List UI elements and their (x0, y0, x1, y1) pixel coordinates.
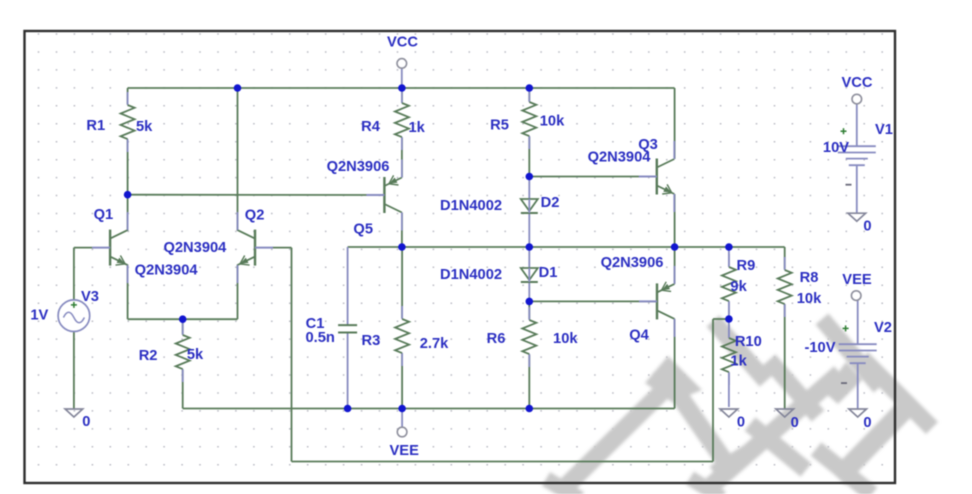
svg-text:10V: 10V (823, 140, 849, 156)
svg-text:Q2N3906: Q2N3906 (601, 255, 664, 271)
svg-text:Q2N3904: Q2N3904 (135, 263, 199, 279)
svg-text:R3: R3 (362, 333, 381, 349)
svg-text:D1: D1 (539, 265, 558, 281)
svg-text:R8: R8 (800, 270, 819, 286)
svg-text:5k: 5k (136, 119, 153, 135)
svg-text:V1: V1 (875, 122, 893, 138)
svg-text:V2: V2 (874, 320, 892, 336)
svg-text:10k: 10k (797, 291, 822, 307)
svg-text:R1: R1 (86, 118, 105, 134)
svg-text:Q5: Q5 (353, 222, 373, 238)
svg-text:1k: 1k (409, 120, 426, 136)
svg-text:VEE: VEE (842, 272, 872, 288)
svg-text:0: 0 (863, 415, 871, 431)
svg-text:0: 0 (82, 414, 90, 430)
svg-text:0.5n: 0.5n (306, 330, 335, 346)
svg-text:10k: 10k (553, 331, 578, 347)
svg-text:VCC: VCC (841, 75, 872, 91)
svg-text:R6: R6 (487, 331, 506, 347)
svg-text:2.7k: 2.7k (420, 336, 449, 352)
svg-text:Q2N3904: Q2N3904 (163, 240, 227, 256)
svg-text:V3: V3 (81, 289, 99, 305)
svg-text:R5: R5 (490, 118, 509, 134)
svg-text:R4: R4 (361, 119, 381, 135)
svg-text:0: 0 (791, 415, 799, 431)
svg-text:R10: R10 (735, 334, 762, 350)
svg-text:R2: R2 (139, 348, 158, 364)
svg-text:R9: R9 (737, 258, 756, 274)
svg-text:Q2N3904: Q2N3904 (588, 150, 652, 166)
svg-text:Q2: Q2 (245, 208, 265, 224)
svg-text:5k: 5k (187, 347, 204, 363)
svg-text:D1N4002: D1N4002 (440, 198, 502, 214)
svg-text:9k: 9k (730, 279, 747, 295)
svg-text:1k: 1k (730, 354, 747, 370)
svg-text:0: 0 (737, 415, 745, 431)
svg-text:Q2N3906: Q2N3906 (327, 159, 390, 175)
svg-text:0: 0 (863, 219, 871, 235)
svg-text:10k: 10k (540, 114, 565, 130)
svg-text:D2: D2 (541, 195, 560, 211)
svg-text:Q4: Q4 (629, 328, 649, 344)
svg-text:-10V: -10V (804, 340, 835, 356)
svg-text:D1N4002: D1N4002 (440, 267, 502, 283)
svg-text:Q1: Q1 (94, 207, 114, 223)
svg-text:VCC: VCC (387, 35, 418, 51)
svg-text:VEE: VEE (390, 443, 420, 459)
svg-text:1V: 1V (30, 308, 48, 324)
